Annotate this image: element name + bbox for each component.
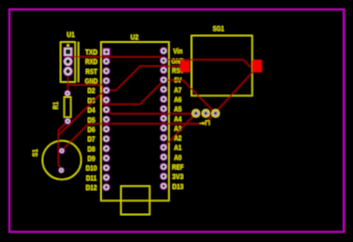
U2 pad D11 [103,174,110,181]
U2 pad RXD [103,58,110,65]
U2 pad D13 [160,182,167,189]
U2 pad D6 [103,125,110,132]
JP name label arrow [200,121,210,126]
svg-text:D11: D11 [86,173,97,182]
svg-text:U1: U1 [67,30,75,39]
svg-text:D2: D2 [88,86,96,95]
R1 pad top [64,90,70,96]
U2 pad D8 [103,145,110,152]
S1 pad top [59,148,65,154]
module U2 outline [101,42,169,201]
U2 right pin names [171,47,184,191]
wire S1 to A4 to SG1 right pad [62,72,253,150]
header U1 outline [61,42,79,82]
U1 pad 2 [63,57,73,67]
U2 left pin names [85,47,98,192]
svg-text:U2: U2 [131,32,139,41]
U2 pad D7 [103,135,110,142]
U2 pad RST [160,66,167,73]
svg-text:D7: D7 [88,135,96,144]
SG1 left pad [180,61,190,72]
svg-text:R1: R1 [51,102,60,109]
svg-text:SG1: SG1 [213,24,224,33]
U1 pad 3 [63,67,73,77]
svg-text:A0: A0 [174,153,182,162]
wire 5V to JP pad3 [164,80,216,113]
svg-text:A6: A6 [174,95,182,104]
svg-text:GND: GND [85,77,98,86]
resistor R1 body [64,97,71,117]
U2 pad RST [103,67,110,74]
svg-text:S1: S1 [31,149,40,156]
svg-text:A7: A7 [174,85,182,94]
svg-text:D8: D8 [88,144,96,153]
JP pad 1 [192,109,200,117]
svg-text:A5: A5 [174,105,182,114]
U2 pad D3 [103,96,110,103]
U2 pad D10 [103,164,110,171]
svg-text:D6: D6 [88,125,96,134]
svg-text:D4: D4 [88,106,96,115]
U1 pad 1 [63,47,72,56]
wire GND branch to D3 5V [102,80,163,104]
svg-text:3V3: 3V3 [172,172,183,181]
U2 pad Vin [160,47,167,54]
U2 pad A3 [160,124,167,131]
U2 pad D5 [103,116,110,123]
JP pad 2 [202,109,210,117]
wire D4 to JP pad1 [106,110,196,114]
U2 pad A4 [160,115,167,122]
wire JP pad1 to A1 [164,113,196,147]
svg-text:D10: D10 [86,164,97,173]
svg-text:D5: D5 [88,115,96,124]
wire U1.3 branch [68,84,103,86]
svg-text:RXD: RXD [85,57,97,66]
S1 pad bottom [58,167,64,173]
U2 pad D12 [103,184,110,191]
U2 pad TXD [103,48,110,55]
svg-text:REF: REF [172,163,184,172]
wire D2 to SG1 left pad [106,66,181,90]
U2 pad D9 [103,154,110,161]
U2 pad A5 [160,105,167,112]
U2 pad 3V3 [160,173,167,180]
svg-text:A3: A3 [174,124,182,133]
U2 pad A7 [160,86,167,93]
svg-text:D12: D12 [86,183,97,192]
SG1 right pad [252,60,262,72]
buzzer SG1 outline [192,36,253,96]
U2 pad D2 [103,87,110,94]
svg-text:A1: A1 [174,143,182,152]
svg-text:Vin: Vin [173,47,182,56]
U2 pad A0 [160,153,167,160]
JP pad 3 [211,109,219,117]
wire R1 to S1 bottom [58,121,67,170]
U2 pad 5V [160,76,167,83]
wire U1.1 to U2 GND right [71,57,164,60]
U2 pad GND [160,57,167,64]
U2 pad A1 [160,144,167,151]
U2 pad A6 [160,95,167,102]
R1 pad bottom [65,118,71,124]
svg-text:D13: D13 [172,182,183,191]
U2 pad GND [103,77,110,84]
svg-text:A4: A4 [174,114,182,123]
U2 pad A2 [160,134,167,141]
sensor S1 outline [42,141,81,180]
wire GND to SG1 pads [164,60,251,67]
svg-text:RST: RST [86,67,98,76]
U2 pad REF [160,163,167,170]
U2 pad D4 [103,106,110,113]
svg-text:TXD: TXD [85,47,97,56]
svg-text:D9: D9 [88,154,96,163]
U2 USB connector outline [121,186,150,214]
wire U1.3 to R1 [67,71,69,93]
wire S1 chain to D2 [58,90,104,135]
